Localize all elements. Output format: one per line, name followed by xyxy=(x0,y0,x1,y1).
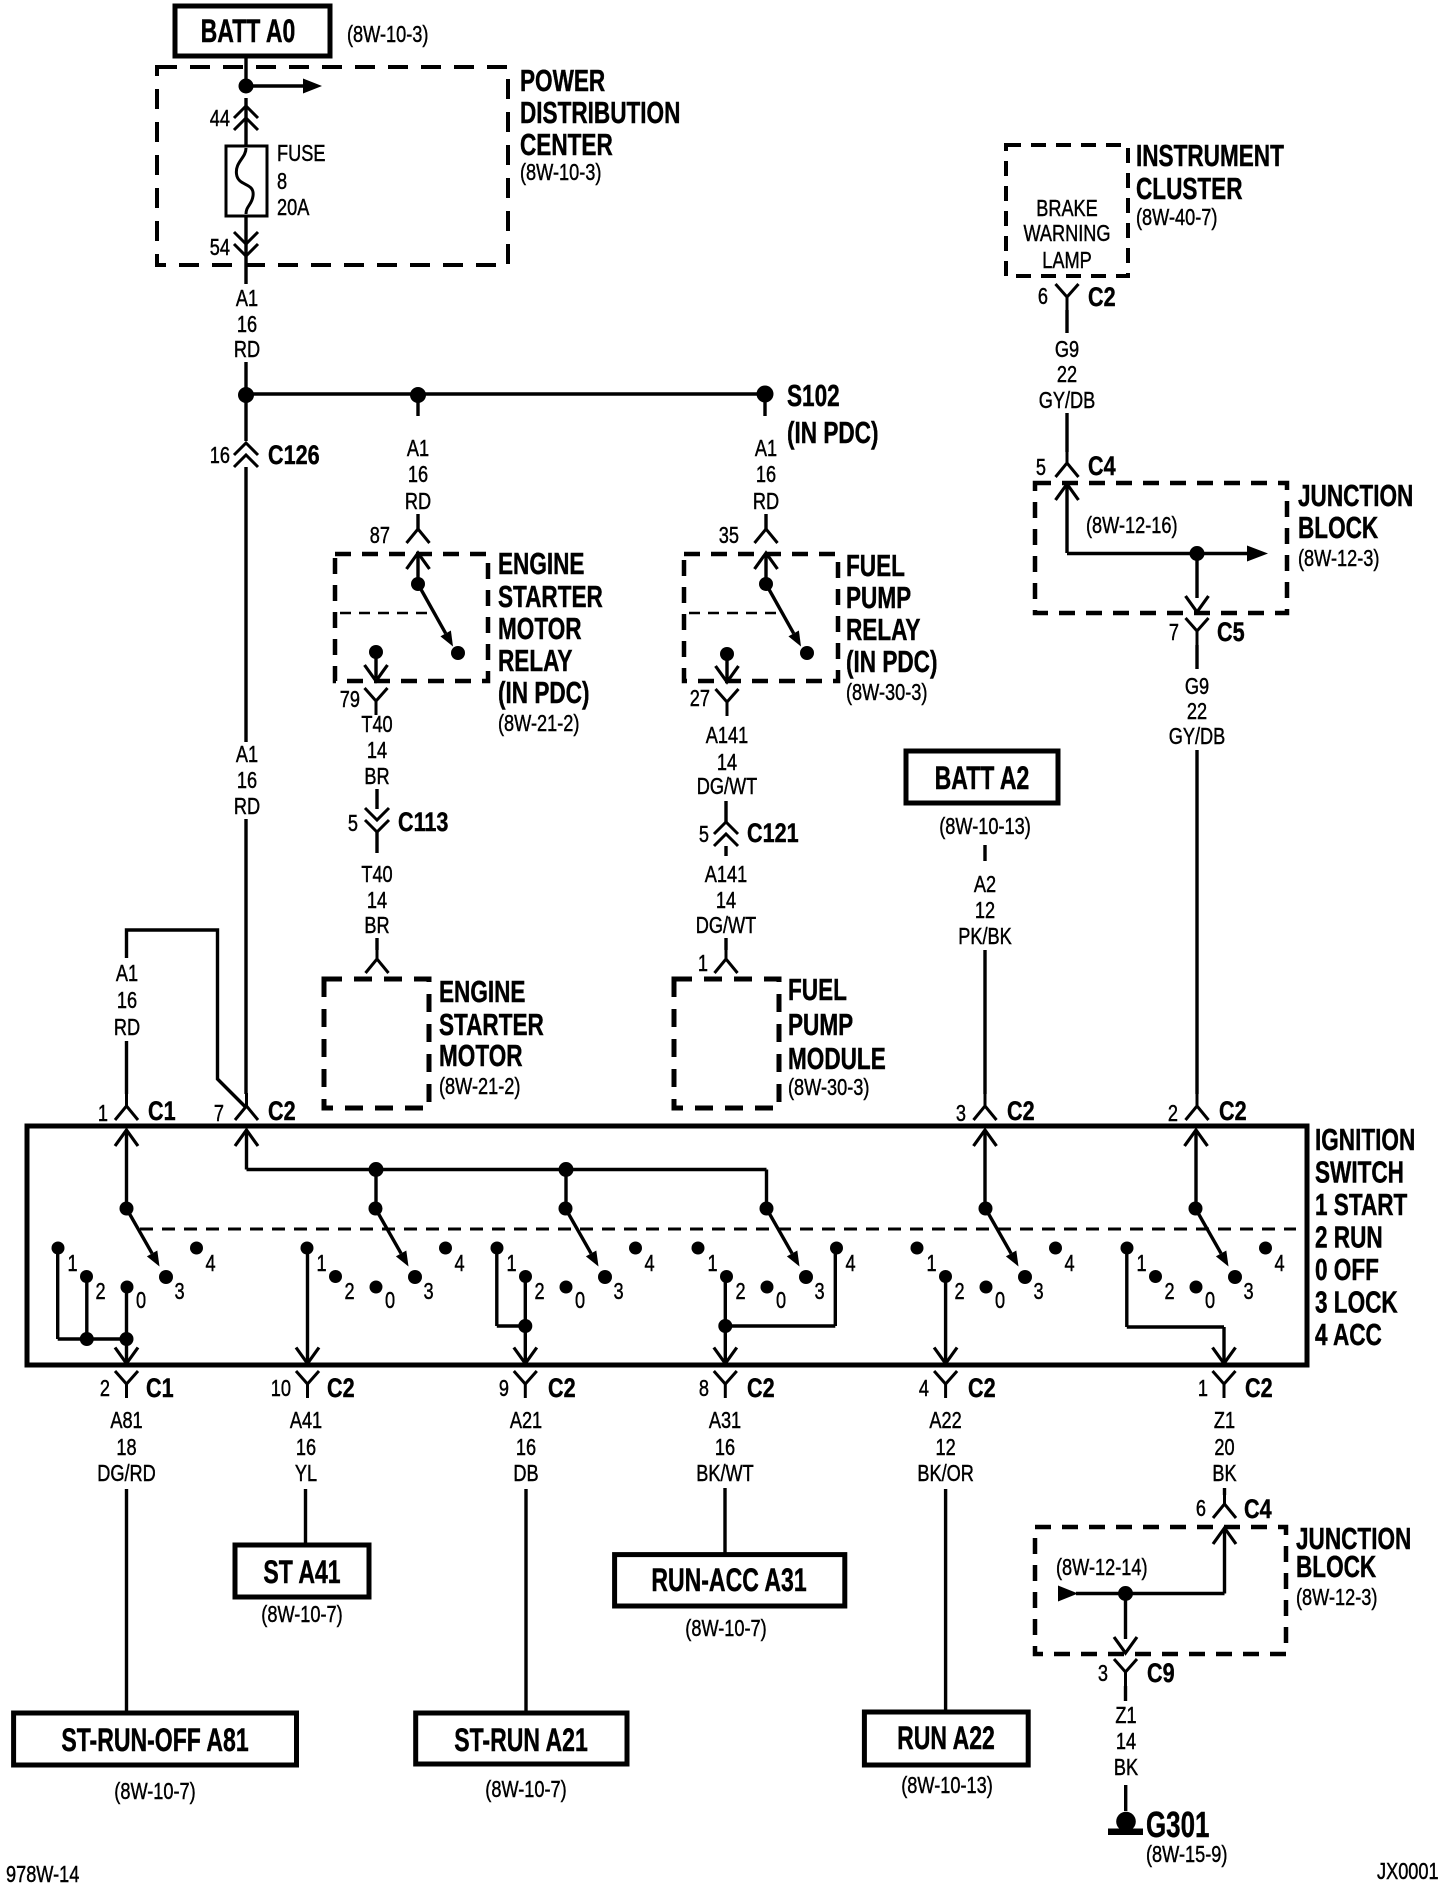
svg-text:5: 5 xyxy=(699,822,709,848)
node junction in junction block (bottom) xyxy=(1118,1586,1133,1601)
svg-text:PUMP: PUMP xyxy=(788,1008,853,1042)
connector pin 9 C2 (output) xyxy=(514,1371,526,1384)
svg-text:(8W-10-3): (8W-10-3) xyxy=(347,22,428,48)
wire S102 bus xyxy=(246,392,765,396)
svg-text:16: 16 xyxy=(408,462,428,488)
svg-text:4: 4 xyxy=(919,1376,929,1402)
wire to engine starter motor xyxy=(375,938,378,950)
switch S2 position 1 contact xyxy=(301,1242,314,1255)
switch S4 position 0 contact xyxy=(761,1281,774,1294)
svg-text:ENGINE: ENGINE xyxy=(439,975,525,1009)
svg-text:9: 9 xyxy=(499,1376,509,1402)
svg-text:C4: C4 xyxy=(1088,452,1116,482)
wire S1 output arrow xyxy=(125,1339,128,1363)
svg-text:2: 2 xyxy=(535,1279,545,1305)
svg-text:A1: A1 xyxy=(236,742,258,768)
svg-text:16: 16 xyxy=(237,312,257,338)
svg-text:27: 27 xyxy=(690,686,710,712)
brake warning lamp dashed box (instrument cluster) xyxy=(1006,145,1128,276)
svg-text:C2: C2 xyxy=(1219,1097,1247,1127)
svg-text:C1: C1 xyxy=(148,1097,176,1127)
switch S6 position 4 contact xyxy=(1259,1242,1272,1255)
connector pin 7 C2 (ignition) xyxy=(245,1093,248,1107)
svg-text:G9: G9 xyxy=(1055,337,1079,363)
connector pin 44 (PDC) xyxy=(244,98,247,146)
connector pin 6 C4 (lower) xyxy=(1223,1491,1226,1505)
svg-text:BR: BR xyxy=(364,913,389,939)
svg-text:0: 0 xyxy=(776,1288,786,1314)
svg-text:4: 4 xyxy=(1065,1251,1075,1277)
switch S4 position 4 contact xyxy=(830,1242,843,1255)
svg-text:C2: C2 xyxy=(968,1374,996,1404)
fuel pump relay arm to contact xyxy=(766,584,794,633)
svg-text:SWITCH: SWITCH xyxy=(1315,1155,1404,1189)
svg-text:14: 14 xyxy=(367,738,387,764)
connector C113 xyxy=(365,808,389,820)
svg-text:PK/BK: PK/BK xyxy=(958,924,1012,950)
switch S6 pivot xyxy=(1189,1202,1203,1216)
junction block C4 entry arrow (bottom) xyxy=(1213,1528,1236,1544)
svg-text:C2: C2 xyxy=(1088,283,1116,313)
wire pin 1 entry arrow xyxy=(115,1130,138,1146)
svg-text:CLUSTER: CLUSTER xyxy=(1136,172,1243,206)
svg-text:T40: T40 xyxy=(361,862,392,888)
svg-text:(8W-12-3): (8W-12-3) xyxy=(1296,1585,1377,1611)
svg-text:(8W-30-3): (8W-30-3) xyxy=(788,1075,869,1101)
wire to S102 bus xyxy=(244,362,247,388)
svg-text:(8W-10-13): (8W-10-13) xyxy=(901,1773,993,1799)
svg-text:CENTER: CENTER xyxy=(520,128,613,162)
svg-text:ENGINE: ENGINE xyxy=(498,547,584,581)
svg-text:16: 16 xyxy=(210,443,230,469)
junction block wire down arrow to C9 xyxy=(1124,1594,1127,1640)
svg-text:20: 20 xyxy=(1214,1435,1234,1461)
svg-text:3: 3 xyxy=(815,1279,825,1305)
wire pin 2 entry arrow xyxy=(1185,1130,1208,1146)
connector pin 5 C4 xyxy=(1066,450,1069,464)
connector pin 7 C5 xyxy=(1186,618,1198,631)
wire to pin 35 xyxy=(764,514,767,531)
wire down to ignition pin 7 xyxy=(244,819,247,1094)
wire to RUN A22 xyxy=(944,1489,947,1712)
svg-text:2: 2 xyxy=(100,1376,110,1402)
svg-text:44: 44 xyxy=(210,106,230,132)
svg-text:A1: A1 xyxy=(236,286,258,312)
wire BATT A2 down xyxy=(983,845,986,861)
wire to ignition switch pin 3 xyxy=(983,950,986,1094)
fuel pump relay dashed box xyxy=(684,554,838,681)
svg-text:A141: A141 xyxy=(706,723,748,749)
svg-text:G9: G9 xyxy=(1185,674,1209,700)
connector pin 2 C1 (output) xyxy=(115,1371,127,1384)
switch S1 arm to position 3 xyxy=(127,1209,153,1254)
node S1 output junction a xyxy=(80,1332,94,1346)
svg-text:RD: RD xyxy=(234,337,260,363)
svg-text:4: 4 xyxy=(1275,1251,1285,1277)
junction block feed arrow right xyxy=(1197,552,1248,555)
svg-text:79: 79 xyxy=(340,687,360,713)
svg-text:S102: S102 xyxy=(787,379,840,413)
svg-text:JX0001: JX0001 xyxy=(1377,1859,1439,1885)
svg-text:RD: RD xyxy=(753,489,779,515)
svg-text:ST-RUN-OFF A81: ST-RUN-OFF A81 xyxy=(61,1722,248,1758)
svg-text:(8W-12-14): (8W-12-14) xyxy=(1056,1555,1148,1581)
svg-text:BATT A2: BATT A2 xyxy=(935,760,1030,796)
svg-text:16: 16 xyxy=(715,1435,735,1461)
svg-text:A21: A21 xyxy=(510,1408,542,1434)
svg-text:1: 1 xyxy=(507,1251,517,1277)
svg-text:1 START: 1 START xyxy=(1315,1188,1408,1222)
svg-text:C5: C5 xyxy=(1217,618,1245,648)
svg-text:MOTOR: MOTOR xyxy=(439,1039,523,1073)
svg-text:3: 3 xyxy=(1034,1279,1044,1305)
svg-text:0: 0 xyxy=(1205,1288,1215,1314)
wire to ST-RUN-OFF A81 xyxy=(125,1489,128,1713)
svg-text:(IN PDC): (IN PDC) xyxy=(498,676,589,710)
node BATT A2 feed box xyxy=(906,751,1058,803)
svg-text:3: 3 xyxy=(956,1101,966,1127)
relay pivot contact xyxy=(411,577,425,591)
svg-text:12: 12 xyxy=(975,898,995,924)
svg-text:C2: C2 xyxy=(268,1097,296,1127)
connector pin 6 C2 (instrument cluster) xyxy=(1056,284,1068,297)
svg-text:3: 3 xyxy=(1098,1661,1108,1687)
svg-text:A1: A1 xyxy=(755,436,777,462)
wire S2 output (pos 1) xyxy=(306,1248,309,1363)
switch S2 pivot xyxy=(369,1202,383,1216)
wire C5 down xyxy=(1195,645,1198,669)
svg-text:22: 22 xyxy=(1187,699,1207,725)
fuel pump relay pivot contact xyxy=(759,577,773,591)
svg-text:ST-RUN A21: ST-RUN A21 xyxy=(454,1722,588,1758)
svg-text:14: 14 xyxy=(1116,1729,1136,1755)
wire S3 output wiring (1,2) xyxy=(495,1247,498,1326)
switch S3 position 0 contact xyxy=(560,1281,573,1294)
node junction A (bus left) xyxy=(238,387,254,403)
svg-text:FUEL: FUEL xyxy=(846,549,905,583)
svg-text:(8W-30-3): (8W-30-3) xyxy=(846,680,927,706)
svg-text:INSTRUMENT: INSTRUMENT xyxy=(1136,139,1284,173)
svg-text:3: 3 xyxy=(175,1279,185,1305)
svg-text:3 LOCK: 3 LOCK xyxy=(1315,1285,1398,1319)
wire BATT A0 to junction xyxy=(244,56,247,86)
wire to ground xyxy=(1124,1785,1127,1811)
svg-text:14: 14 xyxy=(367,888,387,914)
svg-text:(8W-10-7): (8W-10-7) xyxy=(261,1602,342,1628)
svg-text:8: 8 xyxy=(277,169,287,195)
svg-text:0: 0 xyxy=(575,1288,585,1314)
svg-text:16: 16 xyxy=(756,462,776,488)
svg-text:5: 5 xyxy=(348,811,358,837)
svg-text:2: 2 xyxy=(1165,1279,1175,1305)
wire S6 output wiring (pos 1) xyxy=(1125,1248,1128,1327)
svg-text:2: 2 xyxy=(1168,1101,1178,1127)
connector pin 2 C2 (ignition) xyxy=(1196,1093,1199,1107)
relay wire to pin 79 with arrow down xyxy=(374,652,377,678)
svg-text:IGNITION: IGNITION xyxy=(1315,1123,1415,1157)
switch S3 arm to position 3 xyxy=(566,1209,592,1254)
wire to C121 xyxy=(724,801,727,823)
connector C121 xyxy=(714,822,738,834)
connector at engine starter motor xyxy=(376,946,379,960)
svg-text:(8W-10-13): (8W-10-13) xyxy=(939,814,1031,840)
connector pin 1 C1 (ignition) xyxy=(125,1093,128,1107)
svg-text:C2: C2 xyxy=(548,1374,576,1404)
wire to ST-RUN A21 xyxy=(524,1489,527,1713)
svg-text:A22: A22 xyxy=(929,1408,961,1434)
switch S4 position 1 contact xyxy=(692,1242,705,1255)
svg-text:2: 2 xyxy=(345,1279,355,1305)
svg-text:4: 4 xyxy=(455,1251,465,1277)
svg-text:FUEL: FUEL xyxy=(788,973,847,1007)
fuel pump relay pin 27 contact dot xyxy=(720,647,734,661)
svg-text:BRAKE: BRAKE xyxy=(1036,196,1098,222)
fuse 8 20A xyxy=(226,146,267,216)
svg-text:A141: A141 xyxy=(705,862,747,888)
wire C126 vertical xyxy=(244,395,247,441)
svg-text:C9: C9 xyxy=(1147,1659,1175,1689)
switch S2 position 0 contact xyxy=(370,1281,383,1294)
svg-text:(8W-12-3): (8W-12-3) xyxy=(1298,546,1379,572)
svg-text:20A: 20A xyxy=(277,195,309,221)
svg-text:0: 0 xyxy=(136,1288,146,1314)
svg-text:RD: RD xyxy=(234,794,260,820)
node junction in PDC xyxy=(239,79,254,94)
switch S4 arm to position 3 xyxy=(767,1209,793,1254)
svg-text:16: 16 xyxy=(117,988,137,1014)
svg-text:2: 2 xyxy=(736,1279,746,1305)
svg-text:1: 1 xyxy=(1137,1251,1147,1277)
node junction in junction block (top) xyxy=(1190,546,1205,561)
svg-text:DB: DB xyxy=(513,1461,538,1487)
svg-text:8: 8 xyxy=(699,1376,709,1402)
switch S6 position 0 contact xyxy=(1190,1281,1203,1294)
svg-text:GY/DB: GY/DB xyxy=(1169,724,1226,750)
ignition switch box xyxy=(27,1126,1307,1365)
svg-text:16: 16 xyxy=(516,1435,536,1461)
svg-text:C4: C4 xyxy=(1244,1495,1272,1525)
svg-text:RELAY: RELAY xyxy=(846,613,920,647)
svg-text:JUNCTION: JUNCTION xyxy=(1298,479,1413,513)
svg-text:(8W-10-7): (8W-10-7) xyxy=(485,1777,566,1803)
svg-text:3: 3 xyxy=(424,1279,434,1305)
svg-text:DG/WT: DG/WT xyxy=(696,913,757,939)
svg-text:BK: BK xyxy=(1114,1755,1138,1781)
svg-text:87: 87 xyxy=(370,523,390,549)
svg-text:STARTER: STARTER xyxy=(439,1008,544,1042)
wire to pin 87 xyxy=(416,514,419,531)
relay coil-side arrow up (pin 87 entry) xyxy=(407,553,430,569)
switch S1 output wiring (1,2,0) xyxy=(56,1248,59,1339)
svg-text:T40: T40 xyxy=(361,712,392,738)
switch S1 position 2 contact xyxy=(80,1270,93,1283)
svg-text:C2: C2 xyxy=(747,1374,775,1404)
svg-text:(8W-10-3): (8W-10-3) xyxy=(520,160,601,186)
svg-text:C126: C126 xyxy=(268,441,320,471)
svg-text:C2: C2 xyxy=(1007,1097,1035,1127)
svg-text:BK/WT: BK/WT xyxy=(696,1461,754,1487)
svg-text:16: 16 xyxy=(237,768,257,794)
wire branch pin7 to pin1 xyxy=(127,930,247,1108)
svg-text:0 OFF: 0 OFF xyxy=(1315,1253,1379,1287)
fuel pump relay inner dashed line xyxy=(689,612,777,615)
wire S4 output wiring (2,4) xyxy=(834,1248,837,1326)
svg-text:4: 4 xyxy=(206,1251,216,1277)
svg-text:18: 18 xyxy=(116,1435,136,1461)
wire S5 output (pos 2) xyxy=(944,1277,947,1364)
svg-text:1: 1 xyxy=(68,1251,78,1277)
junction block wire to node xyxy=(1067,552,1197,555)
wire bus to S2 pivot xyxy=(374,1170,377,1209)
svg-text:978W-14: 978W-14 xyxy=(6,1862,79,1888)
connector pin 1 C2 (output) xyxy=(1213,1371,1225,1384)
svg-text:1: 1 xyxy=(1198,1376,1208,1402)
fuel pump module dashed box xyxy=(674,979,779,1108)
svg-text:0: 0 xyxy=(385,1288,395,1314)
svg-text:1: 1 xyxy=(927,1251,937,1277)
svg-text:YL: YL xyxy=(295,1461,317,1487)
svg-text:RUN-ACC A31: RUN-ACC A31 xyxy=(651,1562,806,1598)
node S1 output junction b xyxy=(120,1332,134,1346)
svg-text:BATT A0: BATT A0 xyxy=(201,13,296,49)
switch S1 pivot xyxy=(120,1202,134,1216)
fuel pump relay wire to pin 27 with arrow down xyxy=(725,654,728,679)
svg-text:MOTOR: MOTOR xyxy=(498,612,582,646)
svg-text:BR: BR xyxy=(364,764,389,790)
node BATT A0 feed box xyxy=(175,6,330,56)
engine starter motor dashed box xyxy=(324,979,429,1108)
junction block feed arrow left (bottom) xyxy=(1058,1586,1078,1602)
wire to C113 xyxy=(375,789,378,809)
connector pin 54 (PDC) xyxy=(244,216,247,284)
svg-text:RD: RD xyxy=(114,1015,140,1041)
connector pin 10 C2 (output) xyxy=(296,1371,308,1384)
svg-text:C2: C2 xyxy=(1245,1374,1273,1404)
switch S4 position 2 contact xyxy=(720,1270,733,1283)
connector pin 8 C2 (output) xyxy=(714,1371,726,1384)
switch S3 position 2 contact xyxy=(519,1270,532,1283)
node junction B (bus mid) xyxy=(410,387,426,403)
junction block dashed box (top) xyxy=(1035,483,1287,613)
svg-text:4: 4 xyxy=(645,1251,655,1277)
switch S2 position 4 contact xyxy=(439,1242,452,1255)
wire cluster to C4 xyxy=(1065,310,1068,333)
wire branch down to pin 1 xyxy=(125,1041,128,1094)
wire to fuel pump module xyxy=(724,938,727,950)
svg-text:10: 10 xyxy=(271,1376,291,1402)
switch S6 position 1 contact xyxy=(1121,1242,1134,1255)
ignition switch bus from pin 7 xyxy=(235,1130,258,1146)
relay arm to contact xyxy=(418,584,446,633)
svg-text:4 ACC: 4 ACC xyxy=(1315,1318,1382,1352)
switch S2 position 2 contact xyxy=(329,1270,342,1283)
connector pin 4 C2 (output) xyxy=(934,1371,946,1384)
switch S1 position 4 contact xyxy=(190,1242,203,1255)
ground G301 xyxy=(1116,1812,1136,1832)
svg-text:RUN A22: RUN A22 xyxy=(897,1720,995,1756)
svg-text:2: 2 xyxy=(96,1279,106,1305)
svg-text:GY/DB: GY/DB xyxy=(1039,388,1096,414)
svg-text:BLOCK: BLOCK xyxy=(1298,511,1379,545)
svg-text:WARNING: WARNING xyxy=(1023,221,1110,247)
junction block wire to node (bottom) xyxy=(1126,1592,1225,1595)
svg-text:A41: A41 xyxy=(290,1408,322,1434)
svg-text:BLOCK: BLOCK xyxy=(1296,1550,1377,1584)
svg-text:(8W-15-9): (8W-15-9) xyxy=(1146,1842,1227,1868)
junction block wire down arrow to C5 xyxy=(1195,554,1198,599)
junction block wire C4 entry arrow xyxy=(1056,484,1079,500)
node S102 (IN PDC) xyxy=(757,386,774,403)
relay pin 79 contact dot xyxy=(369,645,383,659)
wire bus to S3 pivot xyxy=(564,1170,567,1209)
wire to ST A41 xyxy=(304,1489,307,1545)
svg-text:FUSE: FUSE xyxy=(277,141,325,167)
svg-text:6: 6 xyxy=(1196,1496,1206,1522)
svg-text:5: 5 xyxy=(1036,455,1046,481)
switch S5 position 4 contact xyxy=(1049,1242,1062,1255)
svg-text:14: 14 xyxy=(716,888,736,914)
switch S6 arm to position 3 xyxy=(1196,1209,1222,1254)
svg-text:PUMP: PUMP xyxy=(846,581,911,615)
switch S3 position 1 contact xyxy=(491,1242,504,1255)
svg-text:(8W-40-7): (8W-40-7) xyxy=(1136,205,1217,231)
svg-text:LAMP: LAMP xyxy=(1042,248,1091,274)
wire to junction block C4 xyxy=(1223,1488,1226,1495)
node ST-RUN A21 box xyxy=(416,1713,627,1764)
switch S4 pivot xyxy=(760,1202,774,1216)
svg-text:(IN PDC): (IN PDC) xyxy=(846,645,937,679)
svg-text:22: 22 xyxy=(1057,362,1077,388)
switch S5 position 1 contact xyxy=(911,1242,924,1255)
ignition switch gang dashed line xyxy=(140,1228,1296,1231)
power distribution center dashed box xyxy=(157,67,508,265)
svg-text:54: 54 xyxy=(210,235,230,261)
node ST-RUN-OFF A81 box xyxy=(14,1713,297,1765)
switch S6 position 2 contact xyxy=(1149,1270,1162,1283)
svg-text:A81: A81 xyxy=(110,1408,142,1434)
svg-text:POWER: POWER xyxy=(520,64,605,98)
node S4 output junction xyxy=(718,1319,732,1333)
svg-text:STARTER: STARTER xyxy=(498,580,603,614)
svg-text:DG/RD: DG/RD xyxy=(97,1461,156,1487)
node ST A41 box xyxy=(235,1545,369,1597)
engine starter motor relay dashed box xyxy=(335,554,488,681)
svg-text:4: 4 xyxy=(846,1251,856,1277)
connector pin 27 xyxy=(716,689,728,702)
svg-text:C1: C1 xyxy=(146,1374,174,1404)
svg-text:(8W-12-16): (8W-12-16) xyxy=(1086,513,1178,539)
svg-text:DISTRIBUTION: DISTRIBUTION xyxy=(520,96,680,130)
node S3 output junction xyxy=(518,1319,532,1333)
node bus junction S3 xyxy=(559,1162,574,1177)
connector pin 87 xyxy=(417,516,420,530)
svg-text:3: 3 xyxy=(1244,1279,1254,1305)
wire arrow feed continues right xyxy=(246,84,303,87)
svg-text:G301: G301 xyxy=(1146,1805,1209,1845)
node bus junction S2 xyxy=(369,1162,384,1177)
junction block dashed box (bottom) xyxy=(1035,1527,1286,1654)
svg-text:(8W-10-7): (8W-10-7) xyxy=(685,1616,766,1642)
wire S102 down xyxy=(763,394,766,416)
svg-text:(IN PDC): (IN PDC) xyxy=(787,416,878,450)
svg-text:12: 12 xyxy=(935,1435,955,1461)
switch S5 arm to position 3 xyxy=(986,1209,1012,1254)
svg-text:C121: C121 xyxy=(747,819,799,849)
svg-text:C113: C113 xyxy=(398,808,448,838)
svg-text:C2: C2 xyxy=(327,1374,355,1404)
wire C9 down xyxy=(1124,1686,1127,1701)
connector pin 3 C2 (ignition) xyxy=(984,1093,987,1107)
